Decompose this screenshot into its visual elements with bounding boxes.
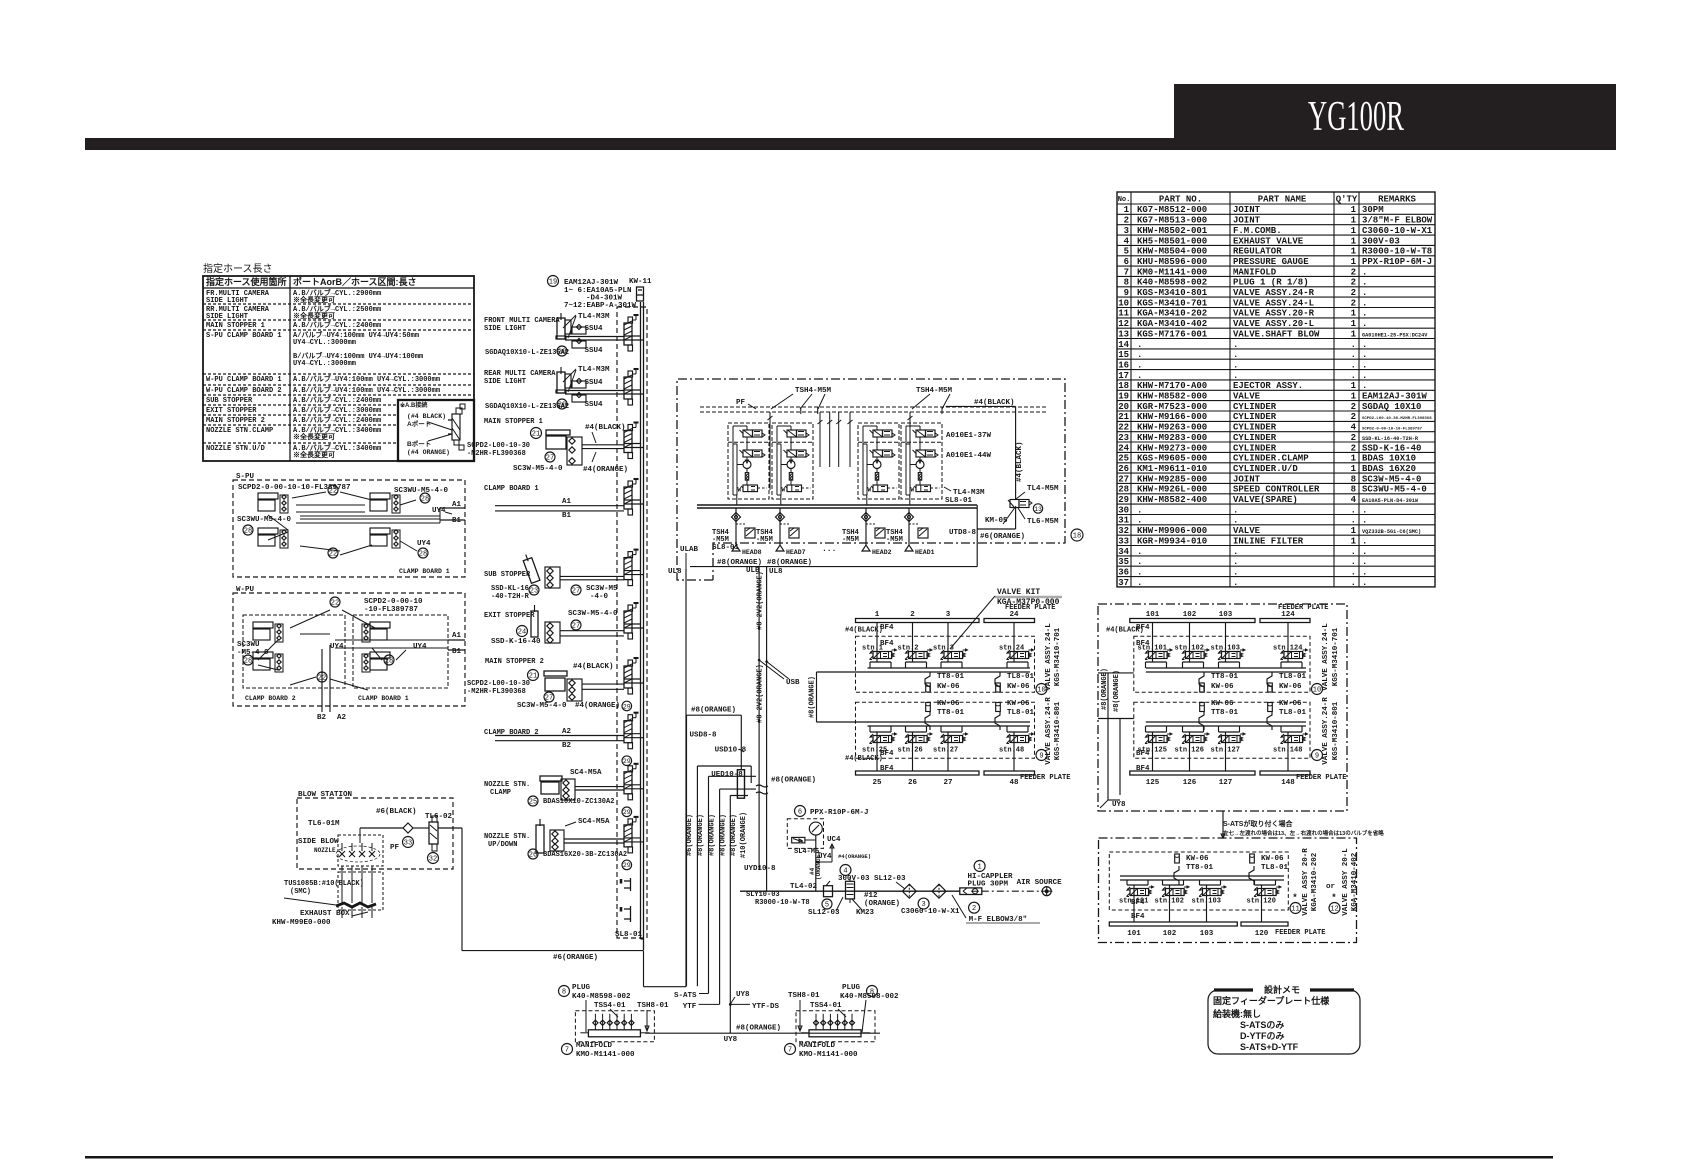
svg-text:UC4: UC4 bbox=[827, 836, 841, 844]
svg-text:BF4: BF4 bbox=[1136, 765, 1150, 773]
valve sats stn.101 bbox=[1126, 880, 1128, 885]
supply rail bottom assy bbox=[868, 721, 1031, 723]
svg-text:FEEDER PLATE: FEEDER PLATE bbox=[1278, 604, 1328, 612]
svg-text:A.B/バルブ→CYL.:2400mm: A.B/バルブ→CYL.:2400mm bbox=[293, 320, 381, 330]
svg-text:-40-T2H-R: -40-T2H-R bbox=[491, 593, 530, 601]
svg-text:103: 103 bbox=[1200, 930, 1214, 938]
svg-text:29: 29 bbox=[623, 862, 631, 869]
wire UC4 branch bbox=[816, 861, 832, 863]
svg-text:TT8-01: TT8-01 bbox=[937, 673, 965, 681]
svg-text:-4-0: -4-0 bbox=[590, 593, 609, 601]
svg-text:CYLINDER: CYLINDER bbox=[1233, 443, 1277, 453]
wire to S-ATS box bbox=[1222, 811, 1224, 838]
svg-text:REGULATOR: REGULATOR bbox=[1233, 247, 1282, 257]
svg-text:25: 25 bbox=[872, 779, 882, 787]
svg-text:S-ATSが取り付く場合: S-ATSが取り付く場合 bbox=[1223, 819, 1293, 828]
supply rail right top bbox=[1146, 667, 1306, 669]
svg-text:16: 16 bbox=[1118, 360, 1129, 370]
svg-text:SC3WU: SC3WU bbox=[237, 641, 260, 649]
svg-text:KGA-M3410-202: KGA-M3410-202 bbox=[1137, 309, 1207, 319]
riser bundle bbox=[686, 715, 688, 986]
supply rail top assy bbox=[868, 667, 1031, 669]
svg-text:102: 102 bbox=[1163, 930, 1177, 938]
svg-text:.: . bbox=[1362, 547, 1367, 557]
svg-text:REAR MULTI CAMERA: REAR MULTI CAMERA bbox=[484, 370, 556, 378]
blow station box bbox=[297, 798, 453, 869]
ejector assy 18 enclosure bbox=[677, 379, 1065, 580]
svg-text:#8(ORANGE): #8(ORANGE) bbox=[736, 1024, 781, 1032]
svg-text:UYD10-8: UYD10-8 bbox=[744, 865, 776, 873]
svg-text:27: 27 bbox=[943, 779, 952, 787]
svg-text:SGDAQ 10X10: SGDAQ 10X10 bbox=[1362, 402, 1421, 412]
svg-text:KM23: KM23 bbox=[856, 909, 875, 917]
svg-text:32: 32 bbox=[1118, 526, 1129, 536]
svg-text:ULAB: ULAB bbox=[680, 546, 699, 554]
svg-text:SSU4: SSU4 bbox=[585, 379, 604, 387]
cylinder S-PU 3 bbox=[370, 493, 390, 499]
valve sats stn.120 bbox=[1254, 880, 1256, 885]
svg-text:CYLINDER: CYLINDER bbox=[1233, 402, 1277, 412]
svg-text:UY4: UY4 bbox=[330, 643, 344, 651]
svg-text:固定フィーダープレート仕様: 固定フィーダープレート仕様 bbox=[1213, 995, 1330, 1006]
svg-text:.: . bbox=[1351, 547, 1356, 557]
svg-text:.: . bbox=[1233, 360, 1238, 370]
svg-text:12: 12 bbox=[1118, 319, 1129, 329]
svg-text:PF: PF bbox=[736, 399, 746, 407]
svg-text:TT8-01: TT8-01 bbox=[1211, 709, 1239, 717]
svg-text:24: 24 bbox=[1009, 611, 1019, 619]
svg-text:7: 7 bbox=[788, 1047, 792, 1055]
svg-text:.: . bbox=[1233, 578, 1238, 588]
svg-text:3/8"M-F ELBOW: 3/8"M-F ELBOW bbox=[1362, 216, 1433, 226]
svg-text:KH5-M8501-000: KH5-M8501-000 bbox=[1137, 236, 1207, 246]
svg-text:125: 125 bbox=[1146, 779, 1160, 787]
fitting KW-06 TL8-01 sats bbox=[1250, 854, 1255, 863]
svg-text:.: . bbox=[1137, 578, 1142, 588]
svg-text:21: 21 bbox=[1118, 412, 1129, 422]
valve clamp-board2 bbox=[624, 721, 632, 743]
svg-text:C3060-10-W-X1: C3060-10-W-X1 bbox=[1362, 226, 1433, 236]
svg-text:#8(ORANGE): #8(ORANGE) bbox=[708, 814, 716, 856]
valve stn.127 bbox=[1218, 726, 1220, 732]
svg-text:27: 27 bbox=[1118, 474, 1129, 484]
svg-text:SC3W-M5-4-0: SC3W-M5-4-0 bbox=[568, 610, 618, 618]
svg-text:A.B/バルブ→CYL.:3000mm: A.B/バルブ→CYL.:3000mm bbox=[293, 405, 381, 415]
svg-text:YTF: YTF bbox=[683, 1003, 697, 1011]
svg-text:.: . bbox=[1233, 340, 1238, 350]
svg-text:GA010HE1-25-PSX:DC24V: GA010HE1-25-PSX:DC24V bbox=[1362, 332, 1428, 338]
svg-text:VALVE ASSY.24-R: VALVE ASSY.24-R bbox=[1233, 288, 1315, 298]
svg-text:SL12-03: SL12-03 bbox=[808, 909, 840, 917]
svg-text:A2: A2 bbox=[337, 714, 347, 722]
svg-text:#6(ORANGE): #6(ORANGE) bbox=[980, 533, 1025, 541]
svg-text:B2: B2 bbox=[562, 742, 572, 750]
wires S-PU bbox=[296, 504, 365, 506]
svg-text:YG100R: YG100R bbox=[1308, 94, 1404, 140]
svg-text:3: 3 bbox=[946, 611, 951, 619]
svg-text:B2: B2 bbox=[317, 714, 327, 722]
svg-text:KW-06: KW-06 bbox=[1279, 683, 1302, 691]
svg-text:.: . bbox=[1362, 381, 1367, 391]
svg-text:CYLINDER.U/D: CYLINDER.U/D bbox=[1233, 464, 1298, 474]
svg-text:KGS-M3410-801: KGS-M3410-801 bbox=[1332, 701, 1340, 760]
title block YG100R bbox=[1174, 84, 1616, 150]
fitting TL8-01 right bbox=[1267, 672, 1272, 691]
svg-text:(SMC): (SMC) bbox=[290, 888, 311, 896]
svg-text:SIDE LIGHT: SIDE LIGHT bbox=[206, 297, 248, 305]
svg-text:VALVE.SHAFT BLOW: VALVE.SHAFT BLOW bbox=[1233, 329, 1320, 339]
svg-text:PLUG: PLUG bbox=[572, 984, 591, 992]
svg-text:A.B/バルブ→UY4:100mm UY4→CYL.:300: A.B/バルブ→UY4:100mm UY4→CYL.:3000mm bbox=[293, 374, 440, 384]
svg-text:#8(ORANGE): #8(ORANGE) bbox=[1113, 670, 1121, 712]
svg-text:.: . bbox=[1351, 578, 1356, 588]
feeder plate bottom bar bbox=[856, 771, 980, 775]
svg-text:KHW-M8582-000: KHW-M8582-000 bbox=[1137, 392, 1207, 402]
svg-text:SC3WU-M5-4-0: SC3WU-M5-4-0 bbox=[237, 516, 292, 524]
svg-text:stn.48: stn.48 bbox=[999, 747, 1024, 755]
svg-text:TSH4-M5M: TSH4-M5M bbox=[916, 387, 953, 395]
svg-text:TL8-01: TL8-01 bbox=[1007, 709, 1035, 717]
svg-text:27: 27 bbox=[572, 588, 580, 596]
svg-text:TSS4-01: TSS4-01 bbox=[810, 1002, 842, 1010]
svg-text:EXHAUST BOX: EXHAUST BOX bbox=[300, 910, 350, 918]
svg-text:EXIT STOPPER: EXIT STOPPER bbox=[206, 407, 257, 415]
svg-text:.: . bbox=[1362, 278, 1367, 288]
svg-text:33: 33 bbox=[1118, 536, 1129, 546]
svg-text:KHW-M7170-A00: KHW-M7170-A00 bbox=[1137, 381, 1207, 391]
air source bbox=[982, 890, 1041, 892]
plug stub 2 bbox=[630, 906, 632, 922]
svg-text:EAM12AJ-301W: EAM12AJ-301W bbox=[564, 279, 619, 287]
svg-text:8: 8 bbox=[1351, 485, 1356, 495]
solenoid valve manifold SL8-01 enclosure bbox=[617, 307, 647, 938]
svg-text:6: 6 bbox=[798, 809, 802, 817]
svg-text:BF4: BF4 bbox=[1131, 913, 1145, 921]
svg-text:102: 102 bbox=[1183, 611, 1197, 619]
valve main-stopper2 bbox=[624, 666, 632, 688]
valve rear-camera bbox=[624, 377, 632, 399]
svg-text:VALVE ASSY.24-R: VALVE ASSY.24-R bbox=[1322, 697, 1330, 765]
svg-text:VALVE: VALVE bbox=[1233, 526, 1261, 536]
svg-text:#4(BLACK): #4(BLACK) bbox=[974, 399, 1015, 407]
svg-text:UY8: UY8 bbox=[736, 991, 750, 999]
svg-text:.: . bbox=[1233, 505, 1238, 515]
gauge valve SL4-M5 bbox=[792, 837, 805, 843]
svg-text:Bポート: Bポート bbox=[407, 439, 431, 448]
svg-text:28: 28 bbox=[244, 658, 252, 666]
svg-text:EAM12AJ-301W: EAM12AJ-301W bbox=[1362, 392, 1427, 402]
svg-text:VALVE: VALVE bbox=[1233, 392, 1261, 402]
svg-text:#4(ORANGE): #4(ORANGE) bbox=[575, 702, 620, 710]
svg-text:-M5M: -M5M bbox=[842, 536, 859, 544]
svg-text:TL8-01: TL8-01 bbox=[1279, 709, 1307, 717]
svg-text:CYLINDER: CYLINDER bbox=[1233, 412, 1277, 422]
svg-text:EA10A5-PLN-D4-301W: EA10A5-PLN-D4-301W bbox=[1362, 498, 1419, 504]
feeder plate top bar right bbox=[1130, 619, 1255, 623]
svg-text:18: 18 bbox=[1073, 533, 1081, 541]
svg-text:1: 1 bbox=[1351, 454, 1357, 464]
svg-text:SC4-M5A: SC4-M5A bbox=[578, 818, 610, 826]
svg-text:KM1-M9611-010: KM1-M9611-010 bbox=[1137, 464, 1207, 474]
svg-text:NOZZLE STN.: NOZZLE STN. bbox=[484, 781, 530, 789]
svg-text:MAIN STOPPER 2: MAIN STOPPER 2 bbox=[485, 658, 544, 666]
svg-text:KM0-M1141-000: KM0-M1141-000 bbox=[1137, 267, 1207, 277]
svg-text:KGS-M3410-701: KGS-M3410-701 bbox=[1054, 627, 1062, 686]
svg-text:KHW-M99E0-000: KHW-M99E0-000 bbox=[272, 919, 331, 927]
svg-text:A010E1-37W: A010E1-37W bbox=[946, 432, 992, 440]
valve 32 blow bbox=[429, 822, 438, 844]
svg-text:MAIN STOPPER 1: MAIN STOPPER 1 bbox=[206, 322, 265, 330]
svg-text:TSH8-01: TSH8-01 bbox=[788, 992, 820, 1000]
svg-text:.: . bbox=[1233, 350, 1238, 360]
svg-text:KHW-M9166-000: KHW-M9166-000 bbox=[1137, 412, 1207, 422]
svg-text:1: 1 bbox=[1351, 257, 1357, 267]
svg-text:UY8: UY8 bbox=[724, 1036, 738, 1044]
svg-text:.: . bbox=[1351, 360, 1356, 370]
svg-text:#8(ORANGE): #8(ORANGE) bbox=[730, 814, 738, 856]
exhaust box bbox=[338, 872, 383, 910]
svg-text:TL6-02: TL6-02 bbox=[425, 813, 453, 821]
svg-text:1: 1 bbox=[1351, 464, 1357, 474]
svg-text:.: . bbox=[1233, 567, 1238, 577]
svg-text:.: . bbox=[1233, 371, 1238, 381]
svg-text:SCPD2-L00-10-30: SCPD2-L00-10-30 bbox=[467, 442, 530, 450]
svg-text:.: . bbox=[1351, 350, 1356, 360]
svg-text:SSD-K-16-40: SSD-K-16-40 bbox=[491, 638, 541, 646]
svg-text:1: 1 bbox=[1351, 329, 1357, 339]
svg-text:KW-06: KW-06 bbox=[1261, 855, 1284, 863]
svg-text:D-YTFのみ: D-YTFのみ bbox=[1240, 1031, 1285, 1041]
svg-text:UL8: UL8 bbox=[668, 568, 682, 576]
svg-text:KW-06: KW-06 bbox=[1007, 683, 1030, 691]
fitting KW-06 TT8-01 sats bbox=[1175, 854, 1180, 863]
ejector unit HEAD1 bbox=[901, 423, 942, 499]
plug 1 hi-cappler bbox=[960, 888, 982, 895]
svg-text:K40-M8598-002: K40-M8598-002 bbox=[572, 993, 631, 1001]
svg-text:UY4: UY4 bbox=[413, 643, 427, 651]
svg-text:B1: B1 bbox=[562, 512, 572, 520]
svg-text:TL4-M3M: TL4-M3M bbox=[953, 489, 985, 497]
svg-text:#8(ORANGE): #8(ORANGE) bbox=[809, 676, 817, 718]
svg-text:KW-06: KW-06 bbox=[1211, 683, 1234, 691]
svg-text:#4(BLACK): #4(BLACK) bbox=[1016, 441, 1024, 482]
svg-text:2: 2 bbox=[1351, 433, 1356, 443]
svg-text:PART NAME: PART NAME bbox=[1258, 195, 1307, 205]
ejector spare stubs bbox=[819, 412, 821, 467]
svg-text:.: . bbox=[1233, 557, 1238, 567]
svg-text:指定ホース長さ: 指定ホース長さ bbox=[203, 262, 273, 275]
manifold connection line bbox=[645, 1032, 880, 1034]
svg-text:W: W bbox=[868, 487, 872, 494]
svg-text:FEEDER PLATE: FEEDER PLATE bbox=[1296, 774, 1346, 782]
svg-text:21: 21 bbox=[529, 673, 537, 681]
wire blow to bus bbox=[461, 828, 463, 951]
wire bus elbow bbox=[641, 938, 644, 940]
svg-text:KHW-M9906-000: KHW-M9906-000 bbox=[1137, 526, 1207, 536]
svg-text:BDAS10X10-ZC130A2: BDAS10X10-ZC130A2 bbox=[543, 798, 614, 806]
svg-text:PLUG 30PM: PLUG 30PM bbox=[968, 881, 1009, 889]
svg-text:CLAMP BOARD 1: CLAMP BOARD 1 bbox=[399, 568, 450, 575]
bottom border line bbox=[85, 1156, 1553, 1159]
svg-text:26: 26 bbox=[1118, 464, 1129, 474]
svg-text:8: 8 bbox=[1351, 474, 1356, 484]
svg-text:.: . bbox=[1137, 567, 1142, 577]
svg-text:22: 22 bbox=[329, 551, 337, 559]
svg-text:W: W bbox=[782, 487, 786, 494]
svg-text:TL4-M3M: TL4-M3M bbox=[578, 313, 610, 321]
svg-text:.: . bbox=[1137, 340, 1142, 350]
parts table bbox=[1117, 192, 1435, 587]
svg-text:148: 148 bbox=[1281, 779, 1295, 787]
svg-text:TT8-01: TT8-01 bbox=[1211, 673, 1239, 681]
svg-text:KGR-M9934-010: KGR-M9934-010 bbox=[1137, 536, 1207, 546]
svg-text:VALVE ASSY.24-L: VALVE ASSY.24-L bbox=[1322, 623, 1330, 691]
valve stn.27 bbox=[940, 726, 942, 732]
svg-text:(#4 ORANGE): (#4 ORANGE) bbox=[407, 449, 450, 456]
svg-text:2: 2 bbox=[1351, 267, 1356, 277]
valve clamp-board1 bbox=[624, 487, 632, 509]
svg-text:R3000-10-W-T8: R3000-10-W-T8 bbox=[755, 899, 810, 907]
svg-text:-M5M: -M5M bbox=[712, 536, 729, 544]
svg-text:25: 25 bbox=[529, 799, 537, 807]
svg-text:22: 22 bbox=[329, 488, 337, 496]
svg-text:.: . bbox=[1362, 536, 1367, 546]
svg-text:指定ホース使用箇所: 指定ホース使用箇所 bbox=[206, 276, 287, 287]
svg-text:1: 1 bbox=[1351, 526, 1357, 536]
svg-text:120: 120 bbox=[1255, 930, 1269, 938]
valve label 19 EAM12AJ-301W bbox=[548, 276, 559, 287]
svg-text:27: 27 bbox=[572, 623, 580, 631]
svg-text:1: 1 bbox=[1351, 216, 1357, 226]
svg-text:1: 1 bbox=[1351, 309, 1357, 319]
svg-text:TL4-02: TL4-02 bbox=[790, 883, 818, 891]
svg-text:CLAMP BOARD 1: CLAMP BOARD 1 bbox=[484, 485, 539, 493]
svg-text:※A.B接続: ※A.B接続 bbox=[400, 401, 427, 409]
svg-text:2: 2 bbox=[1351, 412, 1356, 422]
svg-text:KHW-M8504-000: KHW-M8504-000 bbox=[1137, 247, 1207, 257]
svg-text:29: 29 bbox=[1118, 495, 1129, 505]
manifold line SL8-01 ejector bbox=[697, 504, 977, 506]
svg-text:VALVE ASSY.24-L: VALVE ASSY.24-L bbox=[1045, 623, 1053, 691]
USB rect bbox=[737, 770, 744, 799]
svg-text:※全長変更可: ※全長変更可 bbox=[293, 432, 335, 442]
svg-text:FRONT MULTI CAMERA: FRONT MULTI CAMERA bbox=[484, 317, 560, 325]
svg-text:USD8-8: USD8-8 bbox=[690, 732, 718, 740]
svg-text:.: . bbox=[1362, 557, 1367, 567]
svg-text:VALVE ASSY 20-L: VALVE ASSY 20-L bbox=[1342, 848, 1350, 916]
svg-text:.: . bbox=[1137, 516, 1142, 526]
svg-text:UED10-8: UED10-8 bbox=[711, 771, 743, 779]
svg-text:TL4-M3M: TL4-M3M bbox=[578, 366, 610, 374]
svg-text:TT8-01: TT8-01 bbox=[937, 709, 965, 717]
svg-text:No.: No. bbox=[1118, 196, 1131, 204]
valve assy 24-L right bbox=[1134, 636, 1310, 692]
svg-text:9: 9 bbox=[1039, 753, 1043, 761]
svg-text:10: 10 bbox=[1118, 298, 1129, 308]
svg-text:.: . bbox=[1362, 298, 1367, 308]
svg-text:MANIFOLD: MANIFOLD bbox=[1233, 267, 1277, 277]
svg-text:BF4: BF4 bbox=[1136, 640, 1150, 648]
valve assy 24-L bbox=[856, 636, 1035, 692]
svg-text:stn.26: stn.26 bbox=[898, 747, 923, 755]
svg-text:.: . bbox=[1362, 288, 1367, 298]
svg-text:KW-11: KW-11 bbox=[629, 278, 652, 286]
svg-text:KGR-M7523-000: KGR-M7523-000 bbox=[1137, 402, 1207, 412]
svg-text:22: 22 bbox=[331, 600, 339, 608]
svg-text:SIDE BLOW: SIDE BLOW bbox=[298, 838, 339, 846]
svg-text:B1: B1 bbox=[452, 517, 462, 525]
svg-text:KGS-M9605-000: KGS-M9605-000 bbox=[1137, 454, 1207, 464]
svg-text:VALVE KIT: VALVE KIT bbox=[997, 588, 1040, 597]
fitting TT8-01 right bbox=[1199, 672, 1204, 691]
svg-text:SCPD2-0-00-10: SCPD2-0-00-10 bbox=[364, 598, 423, 606]
svg-text:MAIN STOPPER 2: MAIN STOPPER 2 bbox=[206, 417, 265, 425]
svg-text:REMARKS: REMARKS bbox=[1378, 195, 1416, 205]
svg-text:19: 19 bbox=[1118, 392, 1129, 402]
svg-text:TL8-01: TL8-01 bbox=[1261, 864, 1289, 872]
svg-text:.: . bbox=[1362, 360, 1367, 370]
ejector head drops bbox=[735, 508, 737, 545]
svg-text:R3000-10-W-T8: R3000-10-W-T8 bbox=[1362, 247, 1432, 257]
svg-text:CYLINDER: CYLINDER bbox=[1233, 423, 1277, 433]
title bar bbox=[85, 138, 1616, 150]
svg-text:SUB STOPPER: SUB STOPPER bbox=[206, 397, 253, 405]
svg-text:PF: PF bbox=[390, 844, 400, 852]
svg-text:#4(ORANGE): #4(ORANGE) bbox=[583, 466, 628, 474]
svg-text:#4(ORANGE): #4(ORANGE) bbox=[838, 853, 871, 860]
svg-text:CLAMP: CLAMP bbox=[490, 789, 511, 797]
svg-text:.: . bbox=[1137, 557, 1142, 567]
wire #4 black right bbox=[946, 405, 1016, 407]
svg-text:#6(BLACK): #6(BLACK) bbox=[376, 808, 417, 816]
fitting KW-06 TL8-01 bottom bbox=[996, 703, 1001, 712]
svg-text:W-PU CLAMP BOARD 2: W-PU CLAMP BOARD 2 bbox=[206, 387, 282, 395]
svg-text:.: . bbox=[1137, 547, 1142, 557]
svg-text:BF4: BF4 bbox=[1136, 750, 1150, 758]
svg-text:BF4: BF4 bbox=[880, 624, 894, 632]
svg-text:SGDAQ10X10-L-ZE135A2: SGDAQ10X10-L-ZE135A2 bbox=[485, 403, 569, 411]
svg-text:TSH4-M5M: TSH4-M5M bbox=[795, 387, 832, 395]
svg-text:300V-03: 300V-03 bbox=[1362, 236, 1400, 246]
svg-text:KGS-M3410-701: KGS-M3410-701 bbox=[1332, 627, 1340, 686]
valve stn.48 bbox=[1006, 726, 1008, 732]
svg-text:8: 8 bbox=[1124, 278, 1129, 288]
valve front-camera bbox=[624, 323, 632, 345]
svg-text:.: . bbox=[1351, 371, 1356, 381]
valve stn.25 bbox=[869, 726, 871, 732]
svg-text:31: 31 bbox=[1118, 516, 1129, 526]
svg-text:1: 1 bbox=[1351, 392, 1357, 402]
svg-text:UY4→CYL.:3000mm: UY4→CYL.:3000mm bbox=[293, 360, 356, 368]
wire YTF-DS branch bbox=[729, 1003, 732, 1006]
svg-text:PART NO.: PART NO. bbox=[1159, 195, 1202, 205]
svg-text:1: 1 bbox=[875, 611, 880, 619]
svg-text:*: * bbox=[1292, 893, 1297, 903]
valve main-stopper1 bbox=[624, 431, 632, 453]
feeder plate bottom bar right bbox=[1130, 771, 1255, 775]
svg-text:SL8-01: SL8-01 bbox=[615, 931, 643, 939]
svg-text:UY4: UY4 bbox=[417, 540, 431, 548]
svg-text:VALVE ASSY.24-R: VALVE ASSY.24-R bbox=[1045, 697, 1053, 765]
svg-text:SSU4: SSU4 bbox=[585, 347, 604, 355]
cylinder S-PU 1 bbox=[258, 493, 278, 499]
svg-text:TL6-01M: TL6-01M bbox=[308, 820, 340, 828]
svg-text:13: 13 bbox=[1118, 329, 1129, 339]
svg-text:#8(ORANGE): #8(ORANGE) bbox=[719, 814, 727, 856]
svg-text:UY4→CYL.:3000mm: UY4→CYL.:3000mm bbox=[293, 339, 356, 347]
supply rail sats bbox=[1120, 875, 1284, 877]
svg-text:BDAS16X20-3B-ZC130A2: BDAS16X20-3B-ZC130A2 bbox=[543, 851, 627, 859]
